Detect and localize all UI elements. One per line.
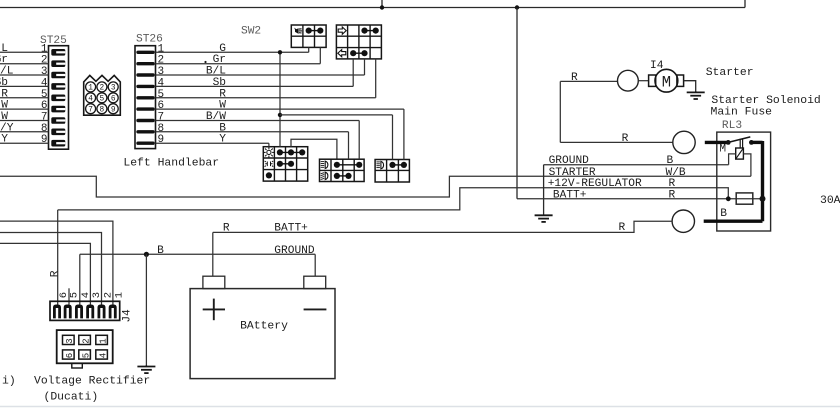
wire: turn col3 riser to net B/L [364,59,366,75]
svg-text:Voltage Rectifier: Voltage Rectifier [34,376,150,388]
svg-text:R: R [1,88,8,100]
J4 pin 6 contact [53,305,61,319]
svg-text:GROUND: GROUND [274,245,315,257]
ST26 pin 4 contact [138,85,153,88]
housing cavity 5 [79,350,91,359]
wire: J4 pin5 stub [68,288,70,304]
housing cavity 4 [96,350,108,359]
svg-text:1: 1 [98,338,108,343]
svg-text:4: 4 [98,353,108,358]
svg-text:BATT+: BATT+ [553,189,587,201]
wire: turn col2 riser to net Sb [352,59,354,87]
wire: ST26 pin 4 net Sb [156,85,354,87]
wire: battery ground run [80,253,315,255]
icon: lights-on sun symbol [267,150,271,154]
svg-text:7: 7 [88,106,93,114]
relay contact blade [728,137,750,143]
svg-text:G: G [219,43,226,55]
ST25 pin 4 contact [51,83,65,90]
housing index tab [72,363,83,368]
wire: ST26 pin 2 net Gr [156,63,321,65]
ST26 pin 8 contact [138,130,153,133]
svg-text:2: 2 [81,338,91,343]
svg-text:9: 9 [158,134,165,146]
svg-text:5: 5 [158,89,165,101]
wire: coil left terminal to GROUND net [729,154,736,165]
svg-text:W: W [1,100,8,112]
connector ST25 body [49,46,69,150]
J4 pin 4 contact [75,305,83,319]
ST25 pin 1 contact [51,49,65,56]
ST25 pin 9 contact [51,140,65,147]
stray dot before Gr label [204,61,206,63]
svg-text:SW2: SW2 [241,26,261,38]
switch: passing table [375,160,409,183]
svg-text:R: R [619,222,626,234]
wire: riser to battery + terminal [212,232,214,276]
wire: ST25 pin 4 lead [0,85,49,87]
svg-text:2: 2 [158,55,165,67]
svg-text:/Y: /Y [0,122,14,134]
icon: low beam headlamp [325,161,328,168]
svg-text:9: 9 [111,106,116,114]
wire: ST25 pin 9 lead [0,142,49,144]
svg-text:3: 3 [65,338,75,343]
battery - terminal post [304,276,326,288]
wire: ST25 pin 3 lead [0,74,49,76]
wire: lighting col3 bridge to dimmer col2 [291,139,337,159]
svg-text:Y: Y [1,134,8,146]
ST25 pin 5 contact [51,95,65,102]
horn contact dots [306,28,312,34]
relay armature link [739,139,741,148]
wire: ST25 pin 1 lead [0,51,49,53]
J4 pin 5 contact [64,305,72,319]
battery minus sign [304,308,327,310]
svg-text:B: B [219,122,226,134]
svg-text:2: 2 [100,85,105,93]
svg-text:5: 5 [41,89,48,101]
ST26 pin 5 contact [138,96,153,99]
svg-text:R: R [223,222,230,234]
dimmer dots row2 [334,173,340,179]
wire: solenoid M output, upper run [560,80,617,82]
wire: passing col3 riser to net W [403,109,405,159]
wire: ST26 pin 1 net G [156,51,309,53]
wire: ST25 pin 5 lead [0,97,49,99]
connector ST26 body [135,46,156,149]
svg-text:Starter: Starter [706,67,754,79]
wire: stub up from node at x=382 [381,0,383,8]
wire: ST26 pin 5 net R [156,97,376,99]
svg-text:7: 7 [158,112,165,124]
wire: ground net drop [145,254,147,366]
wire: BATT+ net to main fuse [517,198,763,200]
lighting table dot row3 (off) [266,172,272,178]
svg-text:6: 6 [111,96,116,104]
svg-text:4: 4 [80,292,92,298]
frame: faint bottom rule [0,406,840,408]
svg-text:W/B: W/B [666,167,686,179]
svg-text:1: 1 [88,85,93,93]
svg-text:9: 9 [41,134,48,146]
wire: thick from contact to fuse bus [751,141,762,144]
9-way plug cavity 8 [97,104,107,114]
svg-text:6: 6 [65,353,75,358]
relay RL3 coil [736,148,744,159]
housing cavity 1 [96,335,108,344]
svg-text:6: 6 [158,100,165,112]
svg-text:M: M [719,144,726,156]
svg-text:R: R [571,72,578,84]
wire: motor to ground [684,81,696,93]
svg-text:4: 4 [158,77,165,89]
wire: J4 pin2 lead [0,233,102,305]
svg-text:(Ducati): (Ducati) [44,392,99,404]
wire: regulator +12V net from J4 pin6 [58,188,729,210]
wire: ST26 pin 7 net B/W [156,120,360,122]
svg-text:Y: Y [219,134,226,146]
icon: high beam headlamp [325,172,328,179]
relay contact right terminal [749,140,754,145]
svg-text:B/L: B/L [206,66,226,78]
svg-text:Sb: Sb [0,77,8,89]
wire: horn col2 riser to net G [308,47,310,52]
dimmer dots row1 [334,162,340,168]
wire: ST25 pin 7 lead [0,120,49,122]
9-way plug cavity 9 [108,104,118,114]
node: junction riser/passing-lamp branch [278,113,282,117]
svg-text:1: 1 [158,43,165,55]
svg-text:Starter Solenoid: Starter Solenoid [711,95,820,107]
svg-text:W: W [219,100,226,112]
svg-text:2: 2 [102,292,114,298]
svg-text:8: 8 [158,123,165,135]
node: junction on net G [278,50,282,54]
wire: main +12V top rail [0,7,745,9]
ST25 pin 7 contact [51,117,65,124]
wire: horn col3 riser to net Gr [319,47,321,63]
rectifier mating housing body [57,330,113,363]
switch SW2 turn-signal table [336,25,381,59]
wire: J4 pin6 lead (R to regulator) [57,210,59,305]
icon: position lamps symbol [265,161,268,167]
svg-text:Left Handlebar: Left Handlebar [123,157,219,169]
svg-text:B: B [720,208,727,220]
ST26 pin 3 contact [138,73,153,76]
wire: thick B terminal out [704,219,763,222]
svg-text:B/W: B/W [206,111,226,123]
J4 pin 3 contact [86,305,94,319]
ST26 pin 7 contact [138,119,153,122]
svg-text:B: B [667,155,674,167]
wire: ST26 pin 9 net Y [156,142,269,144]
connector: inline bullet to starter motor [618,70,639,91]
ground: starter motor earth [695,91,697,92]
wire: ST26 pin 6 net W [156,108,404,110]
svg-text:/L: /L [0,66,14,78]
svg-text:4: 4 [88,96,93,104]
wire: starter-button net from left edge [0,176,751,197]
svg-text:W: W [1,111,8,123]
starter motor M1 right brush [677,75,684,86]
housing cavity 3 [63,335,75,344]
connector J4 body [50,301,120,320]
ST25 pin 3 contact [51,72,65,79]
wire: bullet to motor brush [638,80,648,82]
wire: J4 pin3 lead [0,243,90,304]
wire: dimmer col3 riser to net B [348,132,350,159]
switch SW2 horn table [291,25,326,47]
wire: ST26 pin 8 net B [156,131,349,133]
ground: battery/rectifier earth [145,365,147,367]
wire: long riser net G down to lighting col2 [279,52,281,146]
wire: J4 pin1 lead [0,221,113,304]
svg-text:3: 3 [91,292,103,298]
wire: GROUND net to solenoid coil [544,164,729,166]
9-way plug cavity 6 [108,93,118,103]
wire: thick M terminal feed [705,141,728,144]
svg-text:L: L [1,43,8,55]
wire: riser joining the two R runs [559,81,561,142]
wire: ST25 pin 2 lead [0,63,49,65]
svg-text:i): i) [2,376,16,388]
ST26 pin 6 contact [138,107,153,110]
node: junction on top rail x=382 [380,5,384,9]
wire: branch to passing switch [280,114,393,116]
J4 pin 2 contact [98,305,106,319]
svg-text:R: R [50,270,62,277]
9-way plug cavity 7 [86,104,96,114]
battery plus sign [203,308,225,310]
svg-text:STARTER: STARTER [549,167,596,179]
svg-text:6: 6 [41,100,48,112]
svg-text:BATT+: BATT+ [274,222,308,234]
svg-text:5: 5 [69,292,81,298]
9-way plug cavity 1 [86,82,96,92]
relay RL3 box [717,132,771,231]
housing cavity 2 [79,335,91,344]
wire: coil right terminal to STARTER net [743,154,751,176]
svg-text:J4: J4 [121,309,133,323]
ST25 pin 2 contact [51,60,65,67]
svg-text:1: 1 [114,292,126,298]
passing dots [389,162,395,168]
svg-text:4: 4 [41,77,48,89]
svg-text:3: 3 [111,85,116,93]
lighting table dots row1 [277,149,283,155]
svg-text:Gr: Gr [0,54,8,66]
9-way plug cavity 5 [97,93,107,103]
battery BT1 body [190,289,335,379]
svg-text:R: R [669,189,676,201]
switch: dimmer table [320,159,365,181]
turn switch contact dots row3 [350,50,356,56]
node: +12V joins BATT+ [726,196,731,201]
svg-text:30A: 30A [820,195,840,207]
icon: left turn arrow [338,50,346,57]
fuse F1 30A [736,193,753,204]
svg-text:Sb: Sb [213,77,226,89]
svg-text:3: 3 [41,66,48,78]
svg-text:Gr: Gr [213,54,226,66]
housing cavity 6 [63,350,75,359]
connector: 9-way plug symbol between ST25 and ST26 [84,75,121,115]
svg-text:5: 5 [100,96,105,104]
9-way plug cavity 3 [108,82,118,92]
wire: turn col4 riser to net R [375,59,377,98]
svg-text:R: R [219,88,226,100]
relay contact left pivot [726,140,731,145]
switch: lighting table [263,147,307,181]
svg-text:M: M [662,73,671,91]
wire: dimmer col4 riser to net B/W [358,121,360,160]
icon: horn symbol [294,28,296,31]
node: ground net junction [144,252,149,257]
wire: J4 pin4 lead to ground net [79,254,81,304]
svg-text:3: 3 [158,66,165,78]
lighting table dots row2 [277,161,283,167]
svg-text:Main Fuse: Main Fuse [711,107,773,119]
svg-text:8: 8 [100,106,105,114]
battery + terminal post [203,276,225,288]
icon: right turn arrow [338,27,346,34]
svg-text:2: 2 [41,55,48,67]
node: fuse output junction [760,196,766,202]
wire: ST25 pin 6 lead [0,108,49,110]
ST26 pin 9 contact [138,141,153,144]
ground: GROUND net earth symbol [543,165,545,216]
ST25 pin 8 contact [51,129,65,136]
starter motor M1 left brush [649,75,656,86]
connector: inline bullet on M terminal [673,131,695,153]
wire: solenoid M output, lower run [560,141,673,143]
svg-text:7: 7 [41,112,48,124]
ST26 pin 1 contact [138,51,153,54]
svg-text:BAttery: BAttery [240,320,288,332]
svg-text:GROUND: GROUND [549,155,590,167]
wire: BATT+ drop from rail to fuse feed [516,8,518,199]
starter motor M1 body [655,69,678,92]
wire: ST25 pin 8 lead [0,131,49,133]
wire: net Y stub into lighting table col1 [268,143,270,147]
wire: ST26 pin 3 net B/L [156,74,365,76]
svg-text:RL3: RL3 [722,120,742,132]
wire: passing col2 riser to branch [392,115,394,160]
svg-text:5: 5 [81,353,91,358]
svg-text:R: R [622,133,629,145]
9-way plug cavity 2 [97,82,107,92]
svg-text:B: B [157,245,164,257]
node: junction on top rail x=517 [515,5,519,9]
ST25 pin 6 contact [51,106,65,113]
wire: battery positive feed [213,221,672,232]
svg-text:1: 1 [41,43,48,55]
connector: inline bullet on B terminal [672,210,694,232]
wire: riser to battery - terminal [314,254,316,276]
wire: rail turns up at right end [744,0,746,8]
turn switch contact dots row1 [361,28,367,34]
9-way plug cavity 4 [86,93,96,103]
ST26 pin 2 contact [138,62,153,65]
icon: passing headlamp [381,161,384,168]
J4 pin 1 contact [109,305,117,319]
svg-text:8: 8 [41,123,48,135]
